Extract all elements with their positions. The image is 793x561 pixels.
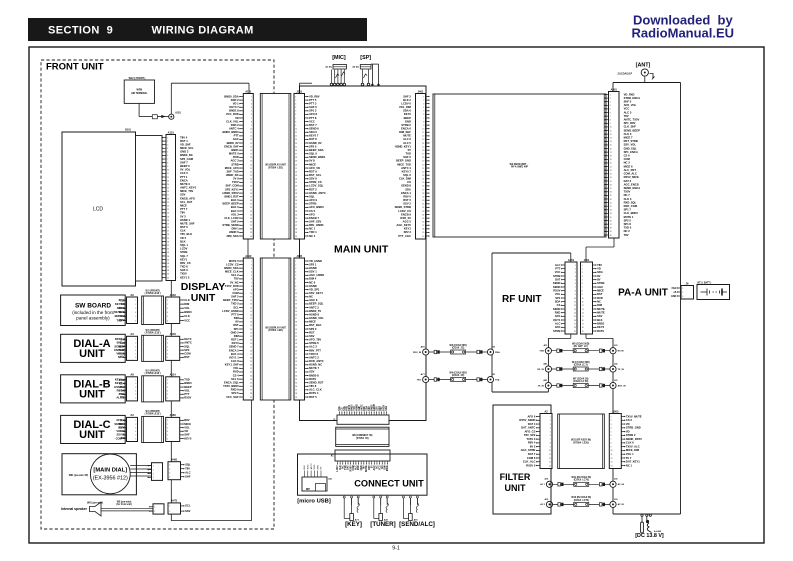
svg-text:4: 4 — [153, 477, 154, 479]
svg-text:2: 2 — [135, 343, 136, 345]
svg-text:ENCB 9: ENCB 9 — [401, 212, 411, 216]
svg-text:7: 7 — [550, 439, 551, 441]
svg-text:8: 8 — [611, 443, 612, 445]
svg-text:9: 9 — [610, 123, 611, 125]
svg-text:BND0: BND0 — [184, 310, 192, 314]
svg-text:SHF 9: SHF 9 — [180, 268, 188, 272]
svg-text:MICE_CLK: MICE_CLK — [225, 270, 239, 274]
svg-text:W7 (COAX 50): W7 (COAX 50) — [573, 377, 589, 380]
svg-text:BLK: BLK — [304, 465, 306, 470]
svg-text:PTT: PTT — [234, 134, 239, 138]
svg-text:STRB_SEND: STRB_SEND — [222, 223, 238, 227]
svg-text:15: 15 — [574, 316, 576, 318]
svg-text:STRB_CS: STRB_CS — [309, 180, 322, 184]
svg-text:CLK: CLK — [184, 298, 190, 302]
svg-text:33: 33 — [610, 210, 612, 212]
svg-text:29: 29 — [250, 361, 252, 363]
svg-text:2: 2 — [167, 383, 168, 385]
svg-text:2: 2 — [135, 383, 136, 385]
svg-text:AFO_CS: AFO_CS — [524, 429, 535, 433]
svg-text:VCC: VCC — [309, 119, 315, 123]
svg-text:KEY0 7: KEY0 7 — [402, 169, 412, 173]
svg-text:AFO: AFO — [555, 325, 561, 329]
svg-text:20: 20 — [610, 163, 612, 165]
svg-text:SEND 6: SEND 6 — [309, 126, 319, 130]
svg-text:W12 ( FRONT ): W12 ( FRONT ) — [129, 77, 146, 80]
svg-text:NC 4: NC 4 — [309, 234, 316, 238]
svg-text:30: 30 — [610, 199, 612, 201]
svg-text:BND1: BND1 — [231, 148, 239, 152]
svg-text:6: 6 — [611, 435, 612, 437]
svg-text:27: 27 — [167, 231, 169, 233]
svg-text:KEY0: KEY0 — [232, 341, 240, 345]
svg-text:22: 22 — [250, 171, 252, 173]
svg-text:BND0: BND0 — [115, 314, 123, 318]
svg-text:RXD_5V: RXD_5V — [400, 216, 411, 220]
svg-text:15: 15 — [422, 146, 424, 148]
svg-text:RF UNIT: RF UNIT — [502, 294, 541, 305]
svg-text:3: 3 — [295, 103, 296, 105]
svg-text:15: 15 — [610, 145, 612, 147]
svg-text:R8V: R8V — [184, 418, 189, 422]
svg-text:TX5V_BND0: TX5V_BND0 — [223, 384, 239, 388]
svg-text:ALC 5: ALC 5 — [403, 141, 411, 145]
svg-text:DIM: DIM — [597, 303, 603, 307]
svg-text:31: 31 — [295, 204, 297, 206]
svg-text:MUTE_SHF: MUTE_SHF — [180, 221, 195, 225]
svg-text:SP2 3: SP2 3 — [404, 230, 412, 234]
svg-text:RST_SCL: RST_SCL — [309, 173, 322, 177]
svg-text:SECTION 9: SECTION 9 — [48, 25, 113, 37]
svg-text:SHF 9: SHF 9 — [231, 219, 239, 223]
svg-text:NC 1: NC 1 — [309, 227, 316, 231]
svg-text:MUTE 0: MUTE 0 — [229, 152, 239, 156]
svg-text:5: 5 — [575, 279, 576, 281]
svg-text:UNIT: UNIT — [191, 292, 216, 304]
svg-text:DIM 1: DIM 1 — [232, 227, 240, 231]
svg-text:ANTC 4: ANTC 4 — [401, 166, 411, 170]
svg-text:29: 29 — [250, 196, 252, 198]
svg-text:KEY0 7: KEY0 7 — [309, 134, 319, 138]
svg-text:26: 26 — [422, 186, 424, 188]
svg-text:ALC 5: ALC 5 — [624, 110, 632, 114]
svg-text:15: 15 — [250, 311, 252, 313]
svg-text:MICE: MICE — [309, 162, 316, 166]
svg-text:10: 10 — [167, 170, 169, 172]
svg-text:UNIT: UNIT — [79, 388, 105, 400]
svg-text:NC 6: NC 6 — [309, 280, 316, 284]
svg-text:1: 1 — [135, 339, 136, 341]
svg-text:3: 3 — [167, 346, 168, 348]
svg-text:ANTC 3: ANTC 3 — [309, 305, 319, 309]
svg-text:8: 8 — [295, 121, 296, 123]
svg-text:BT1 ( BATT ): BT1 ( BATT ) — [698, 281, 712, 284]
svg-text:PTT 5: PTT 5 — [309, 98, 317, 102]
svg-text:B101: B101 — [125, 129, 131, 132]
svg-text:AGC: AGC — [233, 137, 239, 141]
svg-text:PTT 8: PTT 8 — [231, 312, 239, 316]
svg-text:DAT 4: DAT 4 — [528, 422, 536, 426]
svg-text:ENCA 3: ENCA 3 — [229, 348, 239, 352]
svg-text:5: 5 — [135, 435, 136, 437]
svg-text:NC 2: NC 2 — [624, 229, 631, 233]
svg-text:A160: A160 — [170, 413, 177, 417]
svg-text:LCDV 6: LCDV 6 — [401, 101, 411, 105]
svg-text:VCC: VCC — [555, 270, 561, 274]
svg-text:RST 7: RST 7 — [309, 123, 317, 127]
svg-text:SCL 2: SCL 2 — [231, 273, 239, 277]
svg-text:39: 39 — [295, 397, 297, 399]
svg-text:35: 35 — [250, 382, 252, 384]
svg-text:22: 22 — [167, 213, 169, 215]
svg-text:CS 4: CS 4 — [233, 373, 239, 377]
svg-text:DAT: DAT — [555, 277, 561, 281]
svg-text:( P.7954 LE10 ): ( P.7954 LE10 ) — [145, 413, 161, 416]
svg-text:T8V: T8V — [180, 211, 185, 215]
svg-text:STRB: STRB — [180, 250, 187, 254]
svg-text:UNIT: UNIT — [79, 348, 105, 360]
svg-text:1: 1 — [167, 339, 168, 341]
svg-text:MICE: MICE — [387, 465, 389, 471]
svg-text:SHF: SHF — [185, 475, 191, 479]
svg-text:VCC: VCC — [184, 318, 190, 322]
svg-text:RX_IN: RX_IN — [537, 369, 544, 371]
svg-text:2: 2 — [610, 98, 611, 100]
svg-text:37: 37 — [167, 267, 169, 269]
svg-text:17: 17 — [582, 323, 584, 325]
svg-text:KEY0: KEY0 — [115, 302, 123, 306]
svg-text:25: 25 — [167, 223, 169, 225]
svg-text:10: 10 — [549, 450, 551, 452]
svg-text:37: 37 — [295, 225, 297, 227]
svg-text:PTT: PTT — [184, 392, 189, 396]
svg-text:1: 1 — [582, 265, 583, 267]
svg-text:14: 14 — [250, 143, 252, 145]
svg-text:12: 12 — [611, 458, 613, 460]
svg-text:ANTC 3: ANTC 3 — [309, 355, 319, 359]
svg-text:SHF: SHF — [184, 433, 190, 437]
svg-text:MICE 7: MICE 7 — [624, 136, 633, 140]
svg-text:6: 6 — [135, 357, 136, 359]
svg-text:R8V_HSND: R8V_HSND — [309, 223, 323, 227]
svg-text:RST: RST — [309, 330, 315, 334]
svg-text:KEY1_SHF: KEY1_SHF — [225, 363, 239, 367]
svg-text:11: 11 — [549, 454, 551, 456]
svg-text:25: 25 — [422, 182, 424, 184]
svg-text:BND1: BND1 — [597, 321, 605, 325]
svg-text:SEND_BND1: SEND_BND1 — [309, 155, 326, 159]
svg-text:VCC: VCC — [624, 107, 630, 111]
svg-text:W2 (MAIN UNIT ↔: W2 (MAIN UNIT ↔ — [510, 163, 530, 166]
svg-text:3: 3 — [550, 424, 551, 426]
svg-text:11: 11 — [574, 301, 576, 303]
svg-text:AGC: AGC — [373, 465, 376, 470]
svg-text:1: 1 — [167, 380, 168, 382]
svg-text:A8: A8 — [130, 373, 134, 377]
svg-text:VOL: VOL — [555, 292, 561, 296]
svg-text:T8V 8: T8V 8 — [309, 384, 317, 388]
svg-text:28: 28 — [295, 193, 297, 195]
svg-text:AGC: AGC — [597, 285, 603, 289]
svg-text:MICE 6: MICE 6 — [624, 164, 633, 168]
svg-text:6: 6 — [295, 279, 296, 281]
svg-text:CS: CS — [407, 180, 411, 184]
svg-text:12: 12 — [549, 458, 551, 460]
svg-text:5: 5 — [582, 279, 583, 281]
svg-text:VOL: VOL — [184, 306, 190, 310]
svg-text:21: 21 — [295, 168, 297, 170]
svg-text:24: 24 — [167, 220, 169, 222]
svg-text:8: 8 — [167, 162, 168, 164]
svg-text:6: 6 — [582, 283, 583, 285]
svg-text:2: 2 — [295, 100, 296, 102]
svg-text:24: 24 — [250, 343, 252, 345]
svg-text:A121: A121 — [245, 89, 252, 93]
svg-text:22: 22 — [295, 336, 297, 338]
svg-text:32: 32 — [295, 207, 297, 209]
svg-text:18: 18 — [610, 156, 612, 158]
svg-text:MUTE: MUTE — [114, 310, 122, 314]
svg-text:39: 39 — [250, 232, 252, 234]
svg-text:T8V: T8V — [597, 263, 602, 267]
svg-text:3: 3 — [611, 424, 612, 426]
svg-text:9: 9 — [611, 446, 612, 448]
svg-text:1: 1 — [295, 96, 296, 98]
svg-text:[SP]: [SP] — [360, 55, 371, 61]
svg-text:38: 38 — [250, 393, 252, 395]
svg-text:34: 34 — [167, 256, 169, 258]
svg-text:5: 5 — [295, 111, 296, 113]
svg-text:TXB: TXB — [539, 351, 544, 353]
svg-text:10: 10 — [295, 128, 297, 130]
svg-text:1: 1 — [154, 507, 155, 509]
svg-text:15: 15 — [582, 316, 584, 318]
svg-text:32: 32 — [422, 207, 424, 209]
svg-text:CLK_VOL: CLK_VOL — [226, 119, 239, 123]
svg-text:[micro USB]: [micro USB] — [297, 499, 331, 505]
svg-text:SP2 6: SP2 6 — [231, 391, 239, 395]
svg-text:VD: VD — [235, 116, 239, 120]
svg-text:SCL_DAT: SCL_DAT — [180, 200, 193, 204]
svg-text:VOL_DIM: VOL_DIM — [399, 105, 412, 109]
svg-text:SHF: SHF — [117, 341, 123, 345]
svg-text:KEY1: KEY1 — [404, 227, 412, 231]
svg-text:SCL: SCL — [233, 305, 239, 309]
svg-text:17: 17 — [422, 154, 424, 156]
svg-text:AGC_ENCB: AGC_ENCB — [624, 182, 639, 186]
svg-text:4: 4 — [167, 390, 168, 392]
svg-text:AFO 6: AFO 6 — [527, 414, 535, 418]
svg-text:5: 5 — [610, 109, 611, 111]
svg-text:RXD: RXD — [314, 464, 316, 469]
svg-text:[ANT]: [ANT] — [636, 63, 651, 69]
svg-text:BND0 8: BND0 8 — [309, 373, 319, 377]
svg-text:24: 24 — [295, 343, 297, 345]
svg-text:STRB 6: STRB 6 — [309, 341, 319, 345]
svg-text:1: 1 — [550, 416, 551, 418]
svg-text:A114: A114 — [170, 373, 177, 377]
svg-text:VOL: VOL — [184, 388, 190, 392]
svg-text:A1 (K): A1 (K) — [325, 66, 332, 69]
svg-text:VD_HSND: VD_HSND — [309, 259, 322, 263]
svg-text:30: 30 — [295, 365, 297, 367]
svg-text:30: 30 — [295, 200, 297, 202]
svg-text:5V 7: 5V 7 — [626, 456, 632, 460]
svg-text:(COAX LC70): (COAX LC70) — [574, 479, 589, 482]
svg-text:AGC_KEY0: AGC_KEY0 — [396, 223, 411, 227]
svg-text:ANTC_TX5V: ANTC_TX5V — [624, 118, 640, 122]
svg-text:RXO_IN: RXO_IN — [413, 352, 422, 354]
svg-text:RXD: RXD — [308, 464, 310, 469]
svg-text:5: 5 — [167, 394, 168, 396]
svg-text:8: 8 — [550, 443, 551, 445]
svg-text:RXD_SQL: RXD_SQL — [624, 200, 637, 204]
svg-text:TX5V 3: TX5V 3 — [526, 437, 535, 441]
svg-text:VD: VD — [184, 429, 188, 433]
svg-text:10: 10 — [582, 298, 584, 300]
svg-text:4: 4 — [611, 428, 612, 430]
svg-text:5: 5 — [167, 152, 168, 154]
svg-text:27: 27 — [610, 188, 612, 190]
svg-text:4: 4 — [295, 107, 296, 109]
svg-text:33: 33 — [250, 375, 252, 377]
svg-text:36: 36 — [167, 263, 169, 265]
svg-text:ENCB_SHF: ENCB_SHF — [224, 144, 239, 148]
svg-text:5: 5 — [550, 431, 551, 433]
svg-text:18: 18 — [295, 322, 297, 324]
svg-text:28: 28 — [167, 234, 169, 236]
svg-text:24: 24 — [250, 179, 252, 181]
svg-text:RST 2: RST 2 — [309, 187, 317, 191]
svg-text:36: 36 — [295, 221, 297, 223]
svg-text:NC: NC — [309, 295, 313, 299]
svg-text:T8V_BLK: T8V_BLK — [180, 232, 192, 236]
svg-text:28: 28 — [295, 357, 297, 359]
svg-text:[SEND/ALC]: [SEND/ALC] — [399, 521, 435, 528]
svg-text:SDA: SDA — [385, 406, 388, 411]
svg-text:8V: 8V — [119, 298, 122, 302]
svg-text:CS: CS — [118, 425, 122, 429]
svg-text:3: 3 — [582, 272, 583, 274]
svg-text:3: 3 — [169, 473, 170, 475]
svg-text:VD_SHF: VD_SHF — [180, 142, 191, 146]
svg-text:SSV: SSV — [309, 334, 315, 338]
svg-text:CLK 3: CLK 3 — [624, 132, 632, 136]
svg-text:R8V_PTT: R8V_PTT — [309, 348, 321, 352]
svg-text:VCC_SHF: VCC_SHF — [226, 395, 239, 399]
svg-text:SHF_COM: SHF_COM — [226, 184, 240, 188]
svg-text:5: 5 — [423, 111, 424, 113]
svg-text:MICE_AFO: MICE_AFO — [225, 166, 239, 170]
svg-text:24: 24 — [422, 179, 424, 181]
svg-text:15: 15 — [295, 311, 297, 313]
svg-text:SEND_RST: SEND_RST — [309, 380, 324, 384]
svg-text:28: 28 — [250, 357, 252, 359]
svg-text:SQL: SQL — [185, 463, 191, 467]
svg-text:13: 13 — [582, 309, 584, 311]
svg-text:13: 13 — [549, 462, 551, 464]
svg-text:35: 35 — [422, 218, 424, 220]
svg-text:9: 9 — [423, 125, 424, 127]
svg-text:CLK 8: CLK 8 — [231, 359, 239, 363]
svg-text:5: 5 — [135, 394, 136, 396]
svg-text:BEEP_GND: BEEP_GND — [396, 159, 411, 163]
svg-text:6: 6 — [135, 320, 136, 322]
svg-text:A451: A451 — [568, 258, 575, 262]
svg-text:12: 12 — [574, 305, 576, 307]
svg-text:11: 11 — [167, 173, 169, 175]
svg-text:40: 40 — [610, 235, 612, 237]
svg-text:34: 34 — [295, 214, 297, 216]
svg-text:20: 20 — [295, 164, 297, 166]
svg-text:J1 (COAX) 1P: J1 (COAX) 1P — [617, 73, 632, 76]
svg-text:STRB: STRB — [231, 162, 238, 166]
svg-text:A503: A503 — [612, 409, 619, 413]
svg-text:KEY0: KEY0 — [115, 381, 123, 385]
svg-text:8V 2: 8V 2 — [530, 444, 536, 448]
svg-text:BND1 8: BND1 8 — [229, 109, 239, 113]
svg-text:26: 26 — [295, 350, 297, 352]
svg-text:AGC_HSND: AGC_HSND — [309, 273, 324, 277]
svg-text:13: 13 — [167, 180, 169, 182]
svg-text:1: 1 — [169, 506, 170, 508]
svg-text:CLK: CLK — [180, 229, 186, 233]
svg-text:RXD_ANTC: RXD_ANTC — [309, 359, 324, 363]
svg-text:1: 1 — [251, 261, 252, 263]
svg-text:[DC 13.8 V]: [DC 13.8 V] — [635, 533, 664, 539]
svg-text:COM: COM — [116, 436, 123, 440]
svg-text:25: 25 — [295, 182, 297, 184]
svg-text:R8V 0: R8V 0 — [403, 194, 411, 198]
svg-text:22: 22 — [610, 170, 612, 172]
svg-text:9: 9 — [295, 289, 296, 291]
svg-text:ENCB_AFO: ENCB_AFO — [180, 196, 195, 200]
svg-text:34: 34 — [422, 214, 424, 216]
svg-text:ANTC 4: ANTC 4 — [229, 126, 239, 130]
svg-text:STRB: STRB — [553, 274, 560, 278]
svg-text:27: 27 — [422, 189, 424, 191]
svg-text:32: 32 — [610, 206, 612, 208]
svg-text:PTT_AGC: PTT_AGC — [398, 234, 411, 238]
svg-text:14: 14 — [295, 143, 297, 145]
svg-text:( P.7954 LE10 ): ( P.7954 LE10 ) — [145, 372, 161, 375]
svg-text:BLK: BLK — [597, 318, 603, 322]
svg-text:39: 39 — [250, 397, 252, 399]
svg-text:2: 2 — [154, 511, 155, 513]
svg-text:9: 9 — [295, 125, 296, 127]
svg-text:VCC_RXD: VCC_RXD — [226, 112, 239, 116]
svg-text:RX5V_SEND: RX5V_SEND — [519, 418, 535, 422]
svg-text:A9: A9 — [130, 293, 134, 297]
svg-text:2: 2 — [251, 100, 252, 102]
svg-text:29: 29 — [167, 238, 169, 240]
svg-text:SP1 7: SP1 7 — [624, 208, 632, 212]
svg-text:36: 36 — [295, 386, 297, 388]
svg-text:16: 16 — [167, 191, 169, 193]
svg-text:3: 3 — [167, 308, 168, 310]
svg-text:SSV_VOL: SSV_VOL — [624, 143, 637, 147]
svg-text:RX IN: RX IN — [618, 351, 624, 353]
svg-text:1: 1 — [423, 96, 424, 98]
svg-text:W9 (CONNECT 30): W9 (CONNECT 30) — [352, 435, 372, 437]
svg-text:W61 (pre-wire 4P): W61 (pre-wire 4P) — [69, 474, 89, 477]
svg-text:3: 3 — [423, 103, 424, 105]
svg-text:AGC 0: AGC 0 — [403, 219, 412, 223]
svg-text:SHF 5: SHF 5 — [624, 100, 632, 104]
svg-text:4: 4 — [550, 428, 551, 430]
svg-text:STRB_ENCA: STRB_ENCA — [624, 96, 640, 100]
svg-text:17: 17 — [295, 318, 297, 320]
